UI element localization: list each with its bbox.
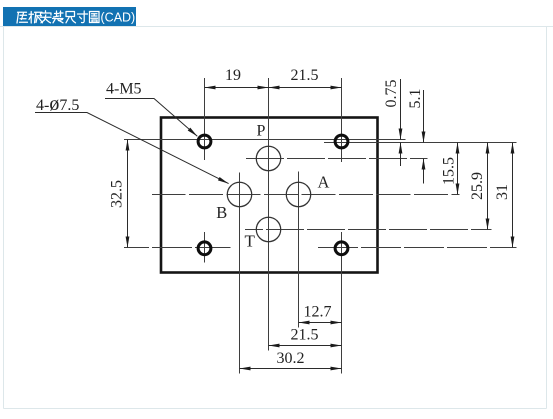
svg-text:T: T [245, 232, 256, 251]
svg-text:B: B [216, 203, 227, 222]
dim 15.5 shaft [457, 143, 459, 195]
dim 32.5 shaft [127, 140, 129, 248]
dim 0.75 shafts [400, 79, 402, 166]
port A circle [286, 182, 310, 206]
leader 4-M5 line [105, 99, 197, 137]
svg-text:4-M5: 4-M5 [106, 81, 142, 98]
dim 5.1 arrows [422, 132, 426, 170]
svg-text:P: P [257, 123, 266, 140]
dim 30.2 line [240, 368, 342, 370]
plate outline [161, 118, 378, 273]
A B ports horizontal centerline [152, 194, 460, 196]
leader 4-dia7.5 line [35, 113, 229, 184]
title CJK glyph strokes 底板安裝尺寸圖 [17, 11, 99, 23]
title bar blue box [3, 7, 136, 26]
bottom bolt holes centerline left segment [124, 247, 231, 249]
svg-text:A: A [318, 173, 330, 192]
dim 25.9 arrows [486, 143, 490, 230]
dim 32.5 arrows [126, 140, 130, 248]
dim 31 shaft [512, 143, 514, 248]
dim 12.7 line [299, 322, 342, 324]
dim 5.1 shafts [423, 90, 425, 184]
svg-text:4-ø7.5: 4-ø7.5 [36, 93, 79, 115]
dim 21.5 bottom arrows [269, 344, 342, 348]
P port horizontal centerline [246, 158, 428, 160]
datum line 0.75 below bolt line [324, 142, 517, 144]
svg-text:5.1: 5.1 [407, 89, 424, 109]
bolt hole bottom-right [335, 242, 348, 255]
top dimension line 19 and 21.5 [205, 87, 342, 89]
bolt hole bottom-left [198, 242, 211, 255]
vertical centerline and extension top-left bolt [204, 78, 206, 160]
svg-text:25.9: 25.9 [469, 172, 486, 200]
dim 30.2 arrows [240, 367, 342, 371]
centerline through top bolt holes [124, 139, 406, 141]
svg-text:15.5: 15.5 [441, 157, 458, 185]
dim 25.9 shaft [487, 143, 489, 230]
dim 0.75 arrows [399, 129, 403, 154]
bolt hole top-right [335, 135, 348, 148]
vertical centerline bottom-left bolt [204, 232, 206, 263]
vertical centerline A port [298, 172, 300, 328]
svg-text:19: 19 [225, 67, 241, 84]
dim 15.5 arrows [456, 143, 460, 195]
svg-text:32.5: 32.5 [109, 180, 126, 208]
vertical centerline P and T axis with top extension [268, 78, 270, 351]
svg-text:31: 31 [494, 184, 511, 200]
svg-text:21.5: 21.5 [291, 67, 319, 84]
vertical centerline and extension top-right bolt [341, 78, 343, 162]
vertical centerline B port [239, 173, 241, 374]
svg-text:21.5: 21.5 [291, 327, 319, 344]
top dim arrows [205, 86, 342, 90]
svg-text:(CAD): (CAD) [101, 11, 136, 25]
dim 21.5 bottom line [269, 345, 342, 347]
dim 31 arrows [511, 143, 515, 248]
port B circle [227, 182, 251, 206]
bolt hole top-left 4-M5 [198, 135, 211, 148]
svg-text:12.7: 12.7 [304, 304, 332, 321]
port P circle [256, 146, 280, 170]
svg-text:30.2: 30.2 [277, 350, 305, 367]
svg-text:0.75: 0.75 [383, 80, 400, 108]
T port horizontal centerline [245, 229, 492, 231]
leader 4-dia7.5 arrowhead [218, 177, 229, 184]
vertical centerline bottom-right bolt with extension down [341, 232, 343, 374]
dim 12.7 arrows [299, 321, 342, 325]
leader 4-M5 arrowhead [188, 128, 198, 137]
port T circle [256, 217, 280, 241]
bottom bolt holes centerline right segment [318, 247, 517, 249]
